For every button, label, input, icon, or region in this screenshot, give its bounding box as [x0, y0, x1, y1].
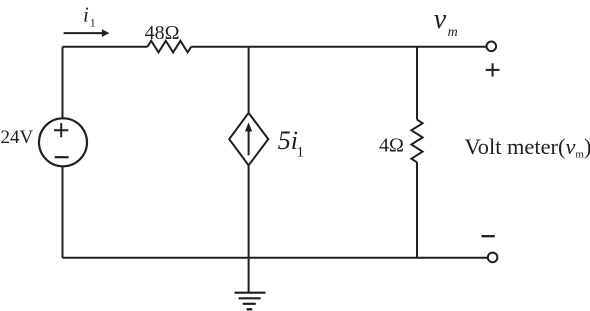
svg-text:4Ω: 4Ω — [379, 135, 404, 157]
svg-text:Volt meter(vm): Volt meter(vm) — [465, 134, 590, 161]
svg-text:48Ω: 48Ω — [145, 22, 180, 44]
svg-text:1: 1 — [297, 145, 305, 161]
svg-text:5i: 5i — [278, 126, 298, 155]
svg-text:24V: 24V — [1, 127, 34, 148]
svg-text:1: 1 — [90, 15, 96, 29]
svg-text:i: i — [83, 2, 89, 26]
svg-text:m: m — [448, 25, 458, 40]
svg-text:v: v — [434, 4, 447, 35]
